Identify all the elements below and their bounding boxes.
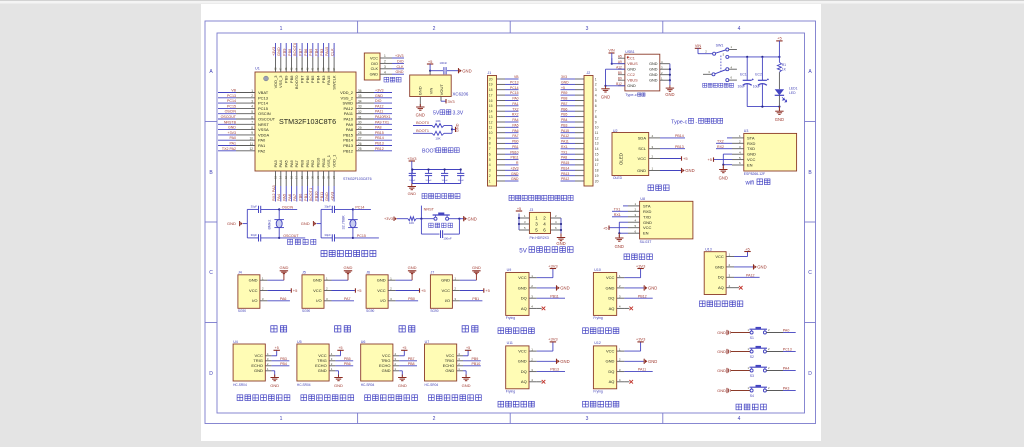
svg-text:GND: GND — [301, 221, 310, 226]
svg-text:TX2: TX2 — [512, 107, 518, 111]
svg-text:OLED: OLED — [613, 176, 623, 180]
svg-text:PA1: PA1 — [229, 142, 236, 146]
svg-text:I/O: I/O — [445, 298, 450, 303]
svg-text:PA11: PA11 — [638, 368, 646, 372]
svg-text:Pin HDR2X3: Pin HDR2X3 — [530, 236, 549, 240]
svg-text:GND: GND — [615, 244, 624, 249]
svg-text:SG90: SG90 — [302, 309, 310, 313]
svg-text:J4: J4 — [238, 271, 242, 275]
svg-text:RX2: RX2 — [512, 113, 519, 117]
svg-text:3: 3 — [586, 416, 589, 422]
svg-text:+5: +5 — [485, 288, 490, 293]
svg-text:25: 25 — [358, 147, 362, 151]
svg-text:GND: GND — [560, 286, 569, 291]
svg-text:PC15: PC15 — [357, 234, 366, 238]
svg-text:GND: GND — [601, 95, 610, 100]
svg-text:PB1: PB1 — [512, 145, 519, 149]
svg-text:1K: 1K — [782, 67, 787, 71]
svg-text:PA0: PA0 — [229, 136, 236, 140]
svg-text:VBUS: VBUS — [627, 62, 638, 66]
svg-text:AQ: AQ — [609, 379, 615, 384]
svg-text:GND: GND — [648, 286, 657, 291]
svg-text:30pF: 30pF — [324, 233, 331, 237]
svg-text:+3V3: +3V3 — [329, 192, 334, 201]
svg-text:U4: U4 — [233, 340, 238, 344]
svg-text:U1: U1 — [255, 67, 260, 71]
svg-text:R1: R1 — [782, 63, 786, 67]
svg-text:PA7: PA7 — [294, 159, 299, 167]
svg-text:GND: GND — [717, 388, 726, 393]
svg-text:TX2 PA2: TX2 PA2 — [222, 147, 236, 151]
svg-text:16: 16 — [595, 158, 599, 162]
svg-text:PB9: PB9 — [282, 49, 287, 56]
svg-text:PA5: PA5 — [512, 123, 518, 127]
svg-text:PB3: PB3 — [321, 75, 326, 83]
svg-text:EN: EN — [747, 163, 753, 168]
svg-text:VSSA: VSSA — [258, 127, 269, 132]
svg-text:U7: U7 — [425, 340, 430, 344]
svg-text:10: 10 — [249, 137, 253, 141]
svg-text:+3V3: +3V3 — [395, 54, 404, 58]
svg-text:GND: GND — [747, 152, 756, 157]
svg-text:DQ: DQ — [521, 369, 527, 374]
svg-text:U13: U13 — [705, 247, 712, 251]
svg-text:+5: +5 — [357, 288, 362, 293]
svg-text:12: 12 — [489, 120, 493, 124]
svg-text:J2: J2 — [587, 71, 591, 75]
svg-text:GND: GND — [276, 47, 281, 56]
svg-text:RX1: RX1 — [561, 145, 568, 149]
svg-text:PB12: PB12 — [561, 177, 569, 181]
svg-text:PB14: PB14 — [561, 166, 569, 170]
svg-text:RX2: RX2 — [717, 145, 724, 149]
svg-text:GND: GND — [370, 73, 379, 77]
svg-text:XC6206: XC6206 — [453, 92, 469, 97]
svg-text:+3V3: +3V3 — [407, 156, 417, 161]
svg-text:3V3: 3V3 — [448, 99, 456, 104]
svg-text:+5: +5 — [338, 346, 342, 350]
svg-text:BOOT1: BOOT1 — [416, 129, 429, 133]
svg-text:GND: GND — [643, 220, 652, 225]
svg-text:TX2: TX2 — [717, 139, 724, 143]
svg-text:GND: GND — [518, 359, 527, 364]
svg-text:VCC: VCC — [249, 288, 258, 293]
svg-text:GND: GND — [560, 359, 569, 364]
svg-text:PB6: PB6 — [344, 362, 351, 366]
svg-text:BOOT: BOOT — [422, 149, 438, 155]
svg-text:PA4: PA4 — [512, 118, 518, 122]
svg-text:2: 2 — [251, 94, 253, 98]
svg-text:Type-c: Type-c — [625, 93, 636, 97]
svg-text:18: 18 — [595, 169, 599, 173]
svg-text:GND: GND — [649, 68, 658, 72]
svg-text:PA9 TX1: PA9 TX1 — [375, 120, 389, 124]
svg-text:HC-SR04: HC-SR04 — [297, 383, 311, 387]
svg-text:Frying: Frying — [506, 316, 516, 320]
svg-text:PB4: PB4 — [280, 362, 287, 366]
svg-text:PA12: PA12 — [746, 273, 755, 277]
svg-text:SG90: SG90 — [366, 309, 374, 313]
svg-text:PA6: PA6 — [289, 159, 294, 167]
svg-text:VCC: VCC — [370, 56, 378, 60]
svg-text:+5: +5 — [745, 246, 750, 251]
svg-text:PB13: PB13 — [561, 172, 569, 176]
svg-text:USB1: USB1 — [625, 50, 634, 54]
svg-text:PB14: PB14 — [343, 138, 354, 143]
svg-text:PB8: PB8 — [408, 362, 415, 366]
svg-text:2: 2 — [433, 416, 436, 422]
svg-text:GND: GND — [648, 359, 657, 364]
svg-text:PB13: PB13 — [375, 142, 384, 146]
svg-text:10uF: 10uF — [738, 84, 746, 88]
svg-text:BOOT0: BOOT0 — [294, 75, 299, 89]
svg-text:30: 30 — [358, 121, 362, 125]
svg-text:2: 2 — [433, 26, 436, 32]
svg-text:27: 27 — [358, 137, 362, 141]
svg-text:Frying: Frying — [593, 390, 603, 394]
svg-text:GND: GND — [685, 168, 694, 173]
svg-text:wifi: wifi — [745, 181, 755, 187]
svg-text:HC-SR04: HC-SR04 — [425, 383, 439, 387]
svg-text:+5: +5 — [517, 207, 521, 211]
svg-text:PC13: PC13 — [510, 81, 519, 85]
svg-text:PB4: PB4 — [561, 118, 568, 122]
svg-text:4: 4 — [738, 26, 741, 32]
svg-text:26: 26 — [358, 142, 362, 146]
svg-text:I/O: I/O — [316, 298, 321, 303]
svg-text:PB15: PB15 — [375, 131, 384, 135]
svg-text:U10: U10 — [594, 268, 601, 272]
svg-text:GND: GND — [717, 368, 726, 373]
svg-text:5: 5 — [595, 99, 597, 103]
svg-text:GND: GND — [279, 265, 288, 270]
svg-text:GND: GND — [715, 264, 724, 269]
svg-text:8MHz: 8MHz — [268, 219, 272, 229]
svg-text:PB6: PB6 — [561, 107, 568, 111]
svg-text:PA3: PA3 — [783, 386, 790, 390]
svg-text:S4: S4 — [750, 394, 754, 398]
svg-text:29: 29 — [358, 126, 362, 130]
svg-text:NRST: NRST — [258, 122, 269, 127]
svg-text:VCC: VCC — [643, 225, 652, 230]
svg-text:TX1: TX1 — [561, 150, 567, 154]
svg-text:RX2 PA3: RX2 PA3 — [271, 185, 276, 201]
svg-text:OSCIN: OSCIN — [282, 205, 294, 209]
svg-text:GND: GND — [462, 383, 471, 388]
svg-text:PB9: PB9 — [472, 357, 479, 361]
svg-text:STM32F103C8T6: STM32F103C8T6 — [343, 177, 372, 181]
svg-text:PB3: PB3 — [319, 49, 324, 56]
svg-text:GND: GND — [606, 359, 615, 364]
svg-text:PB13: PB13 — [343, 143, 354, 148]
svg-text:8: 8 — [595, 115, 597, 119]
svg-text:PB13: PB13 — [675, 145, 684, 149]
svg-text:VDDA: VDDA — [258, 132, 269, 137]
svg-text:PB1: PB1 — [472, 297, 479, 301]
svg-text:VCC: VCC — [442, 288, 451, 293]
svg-text:6: 6 — [595, 104, 597, 108]
svg-text:+3V3: +3V3 — [271, 47, 276, 56]
svg-text:32: 32 — [358, 110, 362, 114]
svg-text:DQ: DQ — [718, 275, 724, 280]
svg-text:B9: B9 — [618, 77, 622, 81]
svg-text:+5: +5 — [561, 86, 565, 90]
svg-text:2: 2 — [595, 83, 597, 87]
svg-text:18: 18 — [489, 88, 493, 92]
svg-text:S1: S1 — [750, 336, 754, 340]
svg-text:4: 4 — [384, 70, 386, 74]
svg-text:Type-c: Type-c — [671, 119, 687, 125]
svg-text:PB5: PB5 — [561, 113, 568, 117]
svg-text:PC14: PC14 — [510, 86, 519, 90]
svg-text:1: 1 — [280, 416, 283, 422]
svg-text:RXD: RXD — [747, 141, 756, 146]
svg-text:7: 7 — [595, 110, 597, 114]
svg-text:+5: +5 — [466, 346, 470, 350]
svg-text:PB11: PB11 — [510, 156, 518, 160]
svg-text:1: 1 — [384, 54, 386, 58]
svg-text:100nF: 100nF — [440, 61, 448, 65]
svg-text:PB10: PB10 — [313, 191, 318, 201]
svg-text:13: 13 — [595, 142, 599, 146]
svg-text:PB5: PB5 — [310, 75, 315, 83]
svg-text:OSCOUT: OSCOUT — [283, 234, 299, 238]
svg-text:PB10: PB10 — [510, 150, 518, 154]
svg-text:SWCLK: SWCLK — [331, 75, 336, 90]
svg-text:C: C — [808, 270, 812, 276]
svg-text:GND: GND — [518, 285, 527, 290]
svg-text:J3: J3 — [530, 208, 534, 212]
svg-text:PB8: PB8 — [287, 49, 292, 56]
svg-text:20: 20 — [595, 179, 599, 183]
svg-text:+3V3: +3V3 — [510, 166, 518, 170]
svg-text:PA7: PA7 — [292, 194, 297, 201]
svg-text:PA10RX1: PA10RX1 — [375, 115, 391, 119]
svg-text:OSCIN: OSCIN — [258, 111, 271, 116]
svg-text:9: 9 — [251, 131, 253, 135]
svg-text:VCC: VCC — [313, 288, 322, 293]
svg-text:SG90: SG90 — [430, 309, 438, 313]
svg-text:PA3: PA3 — [273, 159, 278, 167]
svg-text:+5: +5 — [428, 59, 433, 64]
svg-text:GND: GND — [561, 81, 569, 85]
svg-text:5: 5 — [489, 158, 491, 162]
svg-text:GND: GND — [375, 94, 383, 98]
svg-text:VCC: VCC — [377, 288, 386, 293]
svg-text:CLK: CLK — [329, 48, 334, 56]
svg-text:DQ: DQ — [608, 369, 614, 374]
svg-text:GND: GND — [511, 172, 519, 176]
svg-text:VIN: VIN — [608, 49, 615, 53]
svg-text:PA10: PA10 — [344, 117, 354, 122]
svg-text:U12: U12 — [594, 341, 601, 345]
svg-text:U3: U3 — [744, 129, 749, 133]
svg-text:DQ: DQ — [608, 296, 614, 301]
svg-text:PB12: PB12 — [375, 147, 384, 151]
svg-text:J6: J6 — [366, 271, 370, 275]
svg-text:S2: S2 — [750, 355, 754, 359]
svg-text:BOOT0: BOOT0 — [416, 121, 429, 125]
svg-text:OLED: OLED — [619, 153, 624, 165]
svg-text:PB1: PB1 — [305, 159, 310, 167]
svg-text:12: 12 — [595, 136, 599, 140]
svg-text:PA7: PA7 — [512, 134, 518, 138]
svg-text:4: 4 — [489, 163, 491, 167]
svg-text:+5: +5 — [402, 346, 406, 350]
svg-text:SCL: SCL — [638, 146, 647, 151]
svg-text:3: 3 — [384, 65, 386, 69]
svg-text:PC13: PC13 — [227, 94, 236, 98]
svg-text:EC1: EC1 — [740, 73, 747, 77]
svg-text:LED1: LED1 — [789, 86, 798, 90]
svg-text:D: D — [209, 371, 213, 377]
svg-text:1: 1 — [280, 26, 283, 32]
svg-text:6: 6 — [251, 115, 253, 119]
svg-text:CC2: CC2 — [627, 73, 635, 77]
svg-text:STA: STA — [747, 135, 755, 140]
svg-text:2: 2 — [384, 60, 386, 64]
svg-text:30pF: 30pF — [251, 233, 258, 237]
svg-text:34: 34 — [358, 99, 362, 103]
svg-text:VBUS: VBUS — [627, 79, 638, 83]
svg-text:100nF: 100nF — [425, 180, 432, 182]
svg-text:GND: GND — [757, 265, 766, 270]
svg-text:GND: GND — [318, 368, 327, 373]
svg-text:-: - — [696, 119, 698, 125]
svg-text:B5: B5 — [618, 71, 622, 75]
svg-text:GND: GND — [556, 241, 565, 246]
svg-text:SWID: SWID — [343, 101, 354, 106]
svg-text:10K: 10K — [409, 221, 414, 225]
svg-text:+3V3: +3V3 — [375, 89, 384, 93]
svg-text:PA9: PA9 — [346, 122, 354, 127]
svg-text:PA12: PA12 — [561, 134, 569, 138]
svg-text:8: 8 — [489, 142, 491, 146]
svg-text:32.768K: 32.768K — [341, 215, 345, 230]
svg-text:GND: GND — [468, 216, 477, 221]
svg-text:OSCOUT: OSCOUT — [221, 115, 237, 119]
svg-text:PB12: PB12 — [343, 148, 354, 153]
svg-text:10: 10 — [595, 126, 599, 130]
svg-text:PA1: PA1 — [258, 143, 266, 148]
svg-text:PC15: PC15 — [227, 104, 236, 108]
svg-text:U5: U5 — [297, 340, 302, 344]
svg-text:GND: GND — [627, 84, 636, 88]
svg-text:TXD: TXD — [747, 146, 755, 151]
svg-text:PA8: PA8 — [375, 126, 382, 130]
svg-text:GND: GND — [627, 68, 636, 72]
svg-text:30pF: 30pF — [251, 204, 258, 208]
svg-text:VOUT: VOUT — [439, 84, 444, 96]
svg-text:36: 36 — [358, 89, 362, 93]
svg-text:PA7: PA7 — [344, 297, 351, 301]
svg-text:5V: 5V — [519, 247, 527, 254]
svg-text:HC-SR04: HC-SR04 — [233, 383, 247, 387]
svg-text:GND: GND — [398, 383, 407, 388]
svg-text:NRSTB: NRSTB — [224, 120, 237, 124]
svg-text:PA11: PA11 — [561, 140, 569, 144]
svg-text:PA8: PA8 — [346, 127, 354, 132]
svg-text:PC15: PC15 — [510, 91, 519, 95]
svg-text:A5: A5 — [618, 55, 622, 59]
svg-text:PA0: PA0 — [258, 138, 266, 143]
svg-text:GND: GND — [416, 113, 425, 118]
svg-text:GND: GND — [418, 86, 423, 95]
svg-text:30pF: 30pF — [324, 204, 331, 208]
svg-text:+5: +5 — [707, 157, 712, 162]
svg-text:12: 12 — [249, 147, 253, 151]
svg-text:PB11: PB11 — [550, 294, 559, 298]
svg-text:PA5: PA5 — [284, 159, 289, 167]
svg-text:PA12: PA12 — [375, 104, 384, 108]
svg-text:J1: J1 — [488, 71, 492, 75]
svg-text:HC-SR04: HC-SR04 — [361, 383, 375, 387]
svg-text:PA1: PA1 — [512, 102, 518, 106]
svg-text:PB8: PB8 — [289, 75, 294, 83]
svg-text:PA5: PA5 — [282, 194, 287, 201]
svg-text:PA4: PA4 — [278, 159, 283, 167]
svg-text:OSCOUT: OSCOUT — [258, 117, 276, 122]
svg-text:PB7: PB7 — [408, 357, 415, 361]
svg-text:7: 7 — [489, 147, 491, 151]
svg-text:TXD: TXD — [643, 214, 651, 219]
svg-text:PB0: PB0 — [512, 140, 519, 144]
svg-text:100nF: 100nF — [409, 180, 416, 182]
svg-text:I/O: I/O — [380, 298, 385, 303]
svg-text:6: 6 — [489, 153, 491, 157]
svg-text:PB5: PB5 — [344, 357, 351, 361]
svg-text:+5: +5 — [603, 225, 608, 230]
svg-text:+5: +5 — [293, 288, 298, 293]
svg-text:+5: +5 — [275, 346, 279, 350]
svg-text:PC14: PC14 — [258, 101, 269, 106]
svg-text:PA15: PA15 — [326, 75, 331, 85]
svg-text:10uF: 10uF — [753, 84, 761, 88]
svg-text:31: 31 — [358, 115, 362, 119]
svg-text:+3V3: +3V3 — [548, 337, 558, 342]
svg-text:VCC: VCC — [747, 157, 756, 162]
svg-text:PB0: PB0 — [299, 159, 304, 167]
svg-text:PB7: PB7 — [561, 102, 568, 106]
svg-text:PB4: PB4 — [315, 75, 320, 83]
svg-text:PC15: PC15 — [258, 106, 269, 111]
svg-text:VIN: VIN — [428, 88, 433, 95]
svg-text:GND: GND — [472, 265, 481, 270]
svg-text:19: 19 — [595, 174, 599, 178]
svg-text:GND: GND — [445, 368, 454, 373]
svg-text:+5: +5 — [421, 288, 426, 293]
svg-text:PA4: PA4 — [783, 366, 790, 370]
svg-text:J5: J5 — [302, 271, 306, 275]
svg-text:3: 3 — [251, 99, 253, 103]
svg-text:NRST: NRST — [424, 207, 435, 211]
svg-text:PB4: PB4 — [313, 48, 318, 56]
svg-text:4: 4 — [738, 416, 741, 422]
svg-text:DQ: DQ — [521, 296, 527, 301]
svg-text:VCC: VCC — [606, 275, 615, 280]
svg-text:CLK: CLK — [397, 65, 405, 69]
svg-text:PA12: PA12 — [344, 106, 354, 111]
svg-text:PB14: PB14 — [375, 136, 384, 140]
svg-text:EN: EN — [643, 231, 649, 236]
svg-text:15: 15 — [595, 153, 599, 157]
svg-text:EC2: EC2 — [755, 73, 762, 77]
svg-text:GND: GND — [606, 285, 615, 290]
svg-text:SDA: SDA — [638, 135, 647, 140]
svg-text:GND: GND — [228, 126, 236, 130]
svg-text:PB3: PB3 — [280, 357, 287, 361]
svg-text:GND: GND — [396, 70, 404, 74]
